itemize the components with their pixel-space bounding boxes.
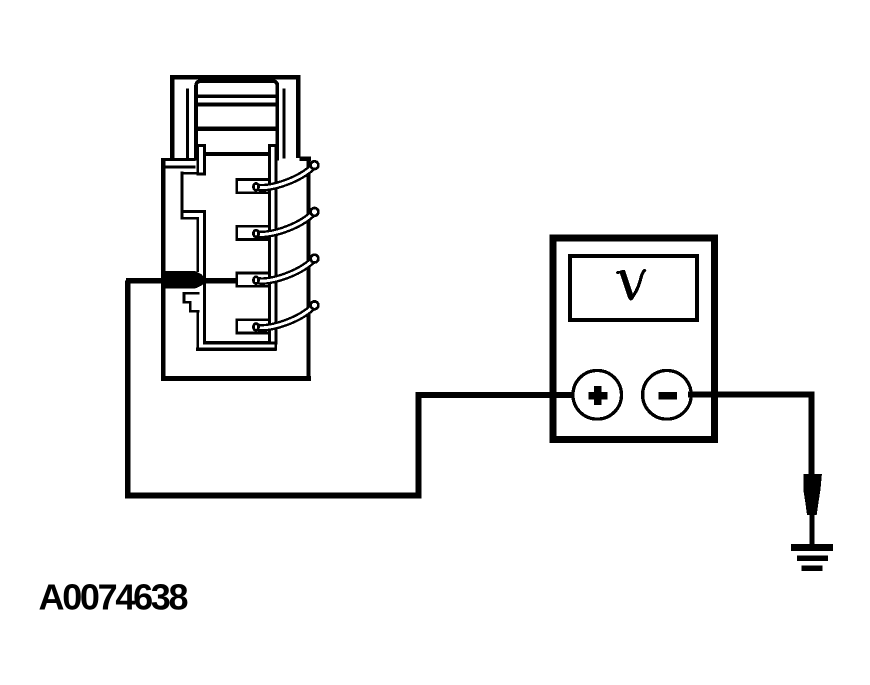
wire from probe to voltmeter positive bbox=[128, 281, 598, 496]
pin 4 bbox=[237, 320, 269, 333]
pin 1 bbox=[237, 180, 269, 193]
cavity upper-left wall bbox=[180, 172, 206, 220]
ground lead bbox=[810, 514, 815, 546]
dome rib line 2 bbox=[198, 103, 276, 107]
wire loop 4 bbox=[253, 301, 318, 330]
connector shell inner wall right bbox=[283, 89, 286, 159]
connector terminal dome bbox=[196, 81, 277, 160]
dome rib line 1 bbox=[198, 94, 276, 98]
probe lead wire into pin 3 bbox=[126, 278, 238, 284]
connector shell inner wall left bbox=[186, 89, 189, 159]
cavity lower-left wall outer bbox=[203, 211, 206, 344]
body top middle bar bbox=[206, 152, 268, 156]
ground probe tip bbox=[803, 474, 822, 515]
cavity lower-left wall inner bbox=[196, 218, 199, 351]
figure label A0074638 bbox=[39, 577, 188, 618]
pin 2 bbox=[237, 226, 269, 239]
cavity bottom inner line bbox=[203, 341, 270, 345]
wire loop 2 bbox=[253, 208, 318, 237]
connector body right edge bbox=[306, 157, 310, 381]
connector C1 shell (outer hat) bbox=[172, 77, 298, 160]
connector body left edge bbox=[161, 158, 165, 381]
right pin tower bbox=[269, 146, 276, 344]
cavity lower-left notch bbox=[184, 293, 200, 311]
positive terminal bbox=[573, 371, 622, 420]
pin 3 bbox=[237, 273, 269, 286]
ground symbol bbox=[791, 544, 833, 571]
wire loop 1 bbox=[253, 161, 318, 190]
voltmeter display bbox=[570, 256, 697, 320]
cavity bottom outer line bbox=[196, 343, 276, 351]
test probe tip bbox=[164, 271, 204, 289]
voltmeter V1 body bbox=[553, 238, 715, 440]
svg-text:A0074638: A0074638 bbox=[39, 577, 188, 618]
connector body left inner shoulder bbox=[165, 165, 196, 168]
connector body right shoulder bbox=[300, 157, 312, 161]
voltmeter nu symbol bbox=[618, 271, 645, 299]
dome rib line 3 bbox=[198, 127, 276, 132]
wire from negative terminal to ground bbox=[688, 395, 812, 475]
left pin tower bbox=[198, 146, 205, 175]
negative terminal bbox=[643, 371, 692, 420]
wire loop 3 bbox=[253, 255, 318, 284]
connector body bottom edge bbox=[161, 376, 311, 381]
connector body left shoulder bbox=[161, 158, 195, 161]
